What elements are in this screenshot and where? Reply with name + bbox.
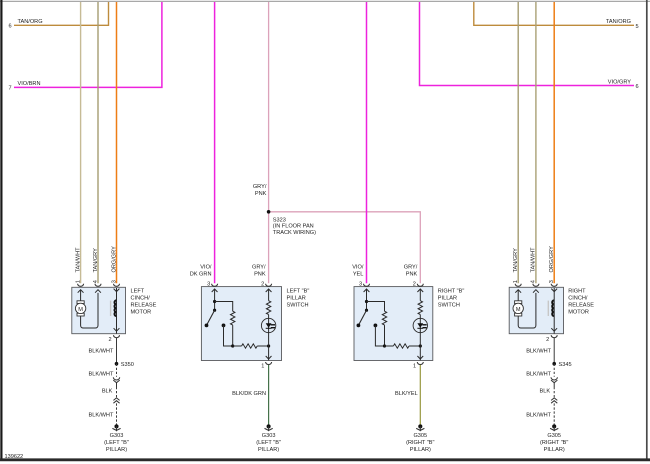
switch throw contact dot D: [222, 324, 226, 328]
connector cup right switch pin 3: [364, 284, 370, 287]
svg-text:2: 2: [546, 337, 549, 343]
svg-text:1: 1: [513, 280, 519, 283]
wire ORG/GRY to left motor pin 3: [116, 2, 118, 283]
op box: right B pillar switch S2: [354, 287, 433, 361]
arrow up right motor pin 4: [533, 290, 539, 293]
svg-text:TAN/GRY: TAN/GRY: [93, 248, 99, 273]
svg-text:(LEFT "B": (LEFT "B": [104, 440, 129, 446]
wire pin 2 down to resistor R3: [268, 289, 270, 301]
svg-text:S345: S345: [559, 362, 572, 368]
right border frame line: [646, 0, 648, 461]
arrow up right switch pin 2: [417, 289, 423, 292]
wire TAN/GRY to left motor pin 4: [97, 2, 99, 283]
op box: left cinch/release motor U1: [72, 287, 126, 333]
svg-text:G303: G303: [262, 433, 276, 439]
wire BLK/WHT S345 to connector (dashed): [553, 364, 555, 377]
wire BLK/WHT left motor pin 2 to S350: [116, 338, 118, 364]
svg-text:LEFT: LEFT: [131, 289, 145, 295]
ground G303 (left motor chain): [112, 424, 120, 431]
wire resistor R2 to node F: [257, 345, 268, 347]
arrow down left switch pin 1: [266, 356, 272, 359]
wire motor loop to pin 4: [518, 293, 536, 328]
op box: left B pillar switch S1: [201, 287, 281, 361]
wire pin 3 to pin 2 through motor box: [553, 288, 555, 334]
connector cup left motor pin 2 (bottom): [114, 335, 120, 338]
svg-text:CINCH/: CINCH/: [131, 296, 151, 302]
svg-text:GRY/: GRY/: [253, 184, 267, 190]
svg-text:PILLAR: PILLAR: [287, 295, 306, 301]
wire node F2 down to pin 1: [419, 346, 421, 360]
wire TAN/GRY to right motor pin 1: [517, 2, 519, 283]
wire pin 3 down to node A: [214, 289, 216, 310]
wire E to resistor R2: [233, 345, 242, 347]
wire BLK segment (dashed) right motor chain: [553, 387, 555, 398]
svg-text:TAN/ORG: TAN/ORG: [18, 19, 43, 25]
svg-text:BLK/WHT: BLK/WHT: [526, 413, 551, 419]
wire BLK/YEL to ground: [419, 365, 421, 425]
LED D2 right switch: [413, 318, 427, 332]
wire pin 3 down to node A2: [366, 289, 368, 310]
svg-text:SWITCH: SWITCH: [287, 302, 309, 308]
svg-text:RELEASE: RELEASE: [131, 303, 157, 309]
svg-text:BLK/WHT: BLK/WHT: [89, 413, 114, 419]
connector cup left switch pin 3: [212, 284, 218, 287]
wire VIO/GRY (from right edge to top): [420, 2, 635, 86]
resistor R5 right switch (horizontal): [393, 344, 409, 348]
wire BLK segment (dashed) left motor chain: [116, 387, 118, 398]
wire BLK/WHT right motor pin 2 to S345: [553, 338, 555, 364]
arrow up left motor pin 4: [95, 290, 101, 293]
svg-text:PILLAR): PILLAR): [410, 447, 431, 453]
wire pin1 to motor: [517, 290, 519, 301]
splice S323 junction dot: [267, 210, 271, 214]
ground G303 (left switch chain): [265, 424, 273, 431]
connector cup right motor pin 1: [515, 284, 521, 287]
node A2 junction dot: [365, 300, 368, 303]
arrow down left motor pin 3: [114, 289, 120, 292]
wire BLK/WHT S350 to connector (dashed): [116, 364, 118, 377]
wire TAN/WHT to left motor pin 1: [80, 2, 82, 283]
wire BLK/WHT to ground (dashed) left motor chain: [116, 403, 118, 425]
connector cup right switch pin 1 (bottom): [417, 362, 423, 365]
arrow down right motor pin 3: [551, 289, 557, 292]
op box: right cinch/release motor U2: [509, 287, 563, 333]
svg-text:(IN FLOOR PAN: (IN FLOOR PAN: [273, 224, 314, 230]
svg-text:7: 7: [9, 86, 12, 92]
svg-text:4: 4: [93, 280, 99, 283]
switch blade contact dot: [357, 324, 361, 328]
resistor R4 right switch (vertical): [382, 311, 386, 325]
node A junction dot: [213, 300, 216, 303]
svg-text:RIGHT "B": RIGHT "B": [438, 288, 465, 294]
svg-text:ORG/GRY: ORG/GRY: [111, 246, 117, 273]
connector cup left motor pin 1: [78, 284, 84, 287]
svg-text:(RIGHT "B": (RIGHT "B": [406, 440, 434, 446]
solenoid coil left motor: [111, 300, 117, 316]
svg-text:BLK: BLK: [540, 388, 551, 394]
wire VIO/DK GRN to left switch pin 3: [214, 2, 216, 283]
arrow up right motor pin 1: [515, 290, 521, 293]
svg-text:6: 6: [9, 23, 12, 29]
node F2 junction dot: [419, 344, 422, 347]
resistor R1 left switch (vertical): [231, 311, 235, 325]
wire resistor to node E: [232, 325, 234, 346]
wire E2 to resistor R5: [385, 345, 394, 347]
svg-text:TAN/WHT: TAN/WHT: [531, 247, 537, 273]
svg-text:G303: G303: [110, 433, 124, 439]
wire pin 3 to pin 2 through motor box: [116, 288, 118, 334]
wire ORG/GRY to right motor pin 3: [553, 2, 555, 283]
svg-text:S350: S350: [121, 362, 134, 368]
wire GRY/PNK from S323 to left switch pin 2: [268, 212, 270, 283]
svg-text:PILLAR: PILLAR: [438, 295, 457, 301]
svg-text:M: M: [516, 307, 521, 313]
ground G305 (right motor chain): [550, 424, 558, 431]
switch blade contact dot: [205, 324, 209, 328]
connector cup left motor pin 3: [114, 284, 120, 287]
node E2 junction dot: [383, 344, 386, 347]
wire resistor R5 to node F2: [409, 345, 420, 347]
svg-text:3: 3: [549, 280, 555, 283]
svg-text:TAN/ORG: TAN/ORG: [606, 19, 631, 25]
wire A to resistor branch: [215, 302, 233, 312]
wire resistor to node E2: [384, 325, 386, 346]
svg-text:1: 1: [75, 280, 81, 283]
arrow down right switch pin 1: [417, 356, 423, 359]
connector cup right motor pin 3: [551, 284, 557, 287]
svg-text:RELEASE: RELEASE: [568, 303, 594, 309]
svg-text:(LEFT "B": (LEFT "B": [256, 440, 281, 446]
wire D2 down to bottom rail: [375, 325, 384, 346]
svg-text:4: 4: [531, 280, 537, 283]
switch throw contact dot D2: [374, 324, 378, 328]
resistor R3 left switch (vertical under pin 2): [266, 301, 270, 315]
wire TAN/ORG right (from right edge to top): [474, 2, 634, 25]
svg-text:VIO/GRY: VIO/GRY: [608, 79, 631, 85]
svg-text:PNK: PNK: [255, 191, 267, 197]
arrow up left switch pin 2: [266, 289, 272, 292]
svg-text:PILLAR): PILLAR): [106, 447, 127, 453]
connector cup left switch pin 1 (bottom): [266, 362, 272, 365]
svg-text:YEL: YEL: [353, 272, 364, 278]
arrow down near right motor pin 2: [551, 328, 557, 331]
svg-text:1: 1: [413, 364, 416, 370]
svg-text:PILLAR): PILLAR): [258, 447, 279, 453]
splice S350 junction dot: [115, 362, 119, 366]
svg-text:CINCH/: CINCH/: [568, 296, 588, 302]
arrow up right switch pin 3: [364, 289, 370, 292]
svg-text:PILLAR): PILLAR): [544, 447, 565, 453]
left border frame line: [0, 0, 2, 460]
svg-text:RIGHT: RIGHT: [568, 289, 586, 295]
svg-text:BLK/WHT: BLK/WHT: [89, 348, 114, 354]
svg-text:TRACK WIRING): TRACK WIRING): [273, 230, 316, 236]
wire pin 2 down to resistor R6: [419, 289, 421, 301]
svg-text:BLK/WHT: BLK/WHT: [526, 371, 551, 377]
svg-text:MOTOR: MOTOR: [131, 310, 152, 316]
svg-text:M: M: [78, 307, 83, 313]
connector cup right motor pin 2 (bottom): [551, 335, 557, 338]
switch blade right switch: [358, 310, 366, 325]
top border frame line: [0, 0, 650, 2]
arrow up left motor pin 1: [78, 290, 84, 293]
node B pivot dot: [213, 309, 216, 312]
svg-text:GRY/: GRY/: [252, 265, 266, 271]
svg-text:VIO/: VIO/: [200, 265, 212, 271]
wire VIO/YEL to right switch pin 3: [366, 2, 368, 283]
svg-text:BLK/YEL: BLK/YEL: [395, 391, 418, 397]
resistor R6 right switch (vertical under pin 2): [418, 301, 422, 315]
svg-text:TAN/GRY: TAN/GRY: [513, 248, 519, 273]
svg-text:TAN/WHT: TAN/WHT: [75, 247, 81, 273]
wire D down to bottom rail: [224, 325, 233, 346]
wire GRY/PNK branch from S323 to right switch pin 2: [269, 212, 421, 283]
svg-text:5: 5: [636, 24, 639, 30]
ground G305 (right switch chain): [416, 424, 424, 431]
svg-text:DK GRN: DK GRN: [190, 272, 212, 278]
node E junction dot: [231, 344, 234, 347]
svg-text:S323: S323: [273, 218, 286, 224]
switch blade left switch: [207, 310, 215, 325]
wire resistor R6 to LED: [419, 315, 421, 346]
arrow down near left motor pin 2: [114, 328, 120, 331]
connector cup left motor pin 4: [95, 284, 101, 287]
wire resistor R3 to LED: [268, 315, 270, 346]
resistor R2 left switch (horizontal): [242, 344, 258, 348]
svg-text:ORG/GRY: ORG/GRY: [549, 246, 555, 273]
in-line connector (double chevron) right motor chain: [551, 398, 557, 403]
connector cup right motor pin 4: [533, 284, 539, 287]
svg-text:1: 1: [261, 364, 264, 370]
node F junction dot: [267, 344, 270, 347]
arrow up left switch pin 3: [212, 289, 218, 292]
svg-text:2: 2: [108, 337, 111, 343]
svg-text:PNK: PNK: [254, 272, 266, 278]
connector cup right switch pin 2: [417, 284, 423, 287]
wire TAN/ORG left (from left edge to top): [14, 2, 109, 25]
in-line connector (female cup and male arrow) right motor chain: [551, 377, 557, 387]
wire BLK/DK GRN to ground: [268, 365, 270, 425]
svg-text:(RIGHT "B": (RIGHT "B": [540, 440, 568, 446]
in-line connector (double chevron) left motor chain: [113, 398, 119, 403]
wire pin1 to motor: [80, 290, 82, 301]
in-line connector (female cup and male arrow) left motor chain: [113, 377, 119, 387]
svg-text:6: 6: [636, 84, 639, 90]
bottom border frame line: [0, 458, 650, 461]
svg-text:BLK/WHT: BLK/WHT: [526, 348, 551, 354]
solenoid coil right motor: [548, 300, 554, 316]
connector cup left switch pin 2: [266, 284, 272, 287]
wire TAN/WHT to right motor pin 4: [535, 2, 537, 283]
svg-text:139622: 139622: [5, 454, 24, 460]
svg-text:LEFT "B": LEFT "B": [287, 288, 310, 294]
node B2 pivot dot: [365, 309, 368, 312]
svg-text:PNK: PNK: [406, 272, 418, 278]
wire A2 to resistor branch: [367, 302, 385, 312]
svg-text:BLK: BLK: [102, 388, 113, 394]
splice S345 junction dot: [552, 362, 556, 366]
svg-text:G305: G305: [547, 433, 561, 439]
wire node F down to pin 1: [268, 346, 270, 360]
wire BLK/WHT to ground (dashed) right motor chain: [553, 403, 555, 425]
motor M left (brushes + body): [75, 301, 85, 316]
svg-text:MOTOR: MOTOR: [568, 310, 589, 316]
svg-text:BLK/WHT: BLK/WHT: [89, 371, 114, 377]
motor M right (brushes + body): [513, 301, 523, 316]
wire GRY/PNK trunk to splice S323: [268, 2, 270, 212]
wire motor loop to pin 4: [81, 293, 98, 328]
svg-text:3: 3: [111, 280, 117, 283]
svg-text:VIO/BRN: VIO/BRN: [18, 81, 41, 87]
svg-text:GRY/: GRY/: [404, 265, 418, 271]
LED D1 left switch: [261, 318, 275, 332]
wire VIO/BRN (from left edge to top): [14, 2, 162, 87]
svg-text:BLK/DK GRN: BLK/DK GRN: [232, 391, 266, 397]
svg-text:G305: G305: [413, 433, 427, 439]
svg-text:VIO/: VIO/: [352, 265, 364, 271]
svg-text:SWITCH: SWITCH: [438, 302, 460, 308]
